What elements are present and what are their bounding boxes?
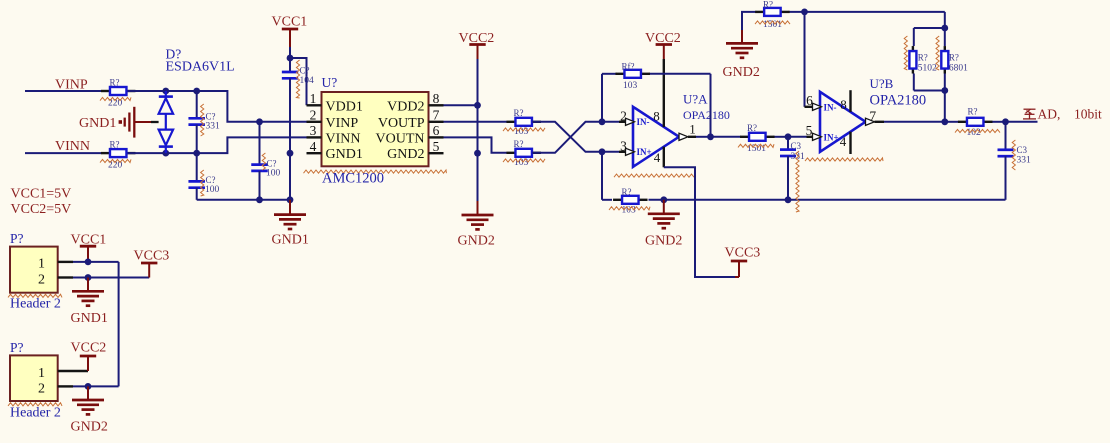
wire IN+ stub bbox=[602, 151, 626, 153]
op-amp U2A OPA2180 triangle bbox=[633, 92, 730, 167]
svg-text:GND1: GND1 bbox=[71, 311, 108, 326]
svg-text:IN+: IN+ bbox=[637, 147, 652, 157]
connector P1 Header 2 body bbox=[10, 231, 58, 293]
svg-text:VCC1: VCC1 bbox=[272, 15, 308, 30]
svg-text:VCC1=5V: VCC1=5V bbox=[11, 186, 72, 201]
pin 4 line V- bbox=[654, 147, 664, 168]
wire link P1 pin1 to P2 pin2 bbox=[118, 262, 120, 387]
pin 2 VINP stub bbox=[307, 108, 322, 123]
resistor R10 6801 bbox=[941, 46, 968, 74]
wire pair top bar bbox=[914, 28, 945, 46]
svg-text:AD,: AD, bbox=[1038, 107, 1061, 122]
junction output row at pair bbox=[941, 118, 948, 125]
power VCC2 at P2 bbox=[71, 341, 107, 371]
svg-text:IN+: IN+ bbox=[824, 132, 839, 142]
capacitor C1 331 (across inputs) bbox=[188, 91, 220, 153]
wire feedback top row bbox=[602, 73, 711, 75]
wire ground to diode midpoint bbox=[151, 121, 159, 123]
power VCC2 for U2A bbox=[645, 31, 681, 59]
svg-text:VCC2=5V: VCC2=5V bbox=[11, 202, 72, 217]
wire pair verticals bbox=[914, 28, 945, 91]
wire U2A output to node bbox=[696, 136, 711, 138]
squiggle beside C4 bbox=[296, 60, 299, 98]
wire VINP left segment bbox=[25, 90, 102, 92]
resistor R1 220 (VINP series) bbox=[101, 78, 136, 109]
svg-text:U?B: U?B bbox=[870, 76, 894, 91]
wire IN- stub bbox=[602, 121, 626, 123]
junction VINN at diode bbox=[162, 150, 169, 157]
svg-text:P?: P? bbox=[10, 231, 24, 246]
svg-text:Rf?: Rf? bbox=[622, 62, 635, 72]
svg-text:6801: 6801 bbox=[949, 64, 968, 74]
svg-text:Header 2: Header 2 bbox=[10, 297, 61, 312]
svg-text:1: 1 bbox=[689, 122, 696, 137]
pin 1 output arrow bbox=[679, 122, 696, 141]
wire feedback right drop to output bbox=[710, 74, 712, 137]
squiggle under P2 bbox=[8, 403, 62, 406]
junction rail at C3 bbox=[256, 196, 263, 203]
squiggle under R7 bbox=[738, 144, 774, 147]
wire pair bottom bar bbox=[914, 90, 945, 92]
junction U2A output node bbox=[707, 133, 714, 140]
junction rail at C5 bbox=[785, 196, 792, 203]
svg-text:5: 5 bbox=[806, 123, 813, 138]
svg-text:R?: R? bbox=[968, 107, 978, 117]
resistor R2 220 (VINN series) bbox=[101, 140, 136, 171]
wire VCC2/GND2 column bbox=[477, 59, 479, 201]
wire bottom rail bbox=[602, 199, 1006, 201]
resistor R9 5102 bbox=[909, 46, 937, 74]
svg-text:Header 2: Header 2 bbox=[10, 406, 61, 421]
power VCC1 (top) bbox=[272, 15, 308, 48]
ground GND1 at P1 bbox=[71, 278, 108, 326]
wire C4 bottom to ground column bbox=[289, 78, 291, 200]
svg-text:103: 103 bbox=[623, 81, 638, 91]
squiggle beside C6 bbox=[1012, 140, 1015, 170]
squiggle under U1 bbox=[304, 170, 447, 173]
svg-text:2: 2 bbox=[310, 108, 317, 123]
svg-text:P?: P? bbox=[10, 340, 24, 355]
svg-text:8: 8 bbox=[433, 91, 440, 106]
pin 8 line V+ bbox=[653, 59, 664, 127]
svg-text:R?: R? bbox=[747, 123, 757, 133]
svg-text:7: 7 bbox=[869, 108, 876, 123]
svg-text:104: 104 bbox=[300, 76, 315, 86]
wire P1 pin2 row bbox=[73, 277, 149, 279]
svg-text:331: 331 bbox=[206, 122, 221, 132]
wire IN+ down to gnd row bbox=[601, 152, 603, 200]
svg-text:VINN: VINN bbox=[55, 139, 90, 154]
junction IN+ node bbox=[599, 148, 606, 155]
svg-text:2: 2 bbox=[38, 273, 45, 288]
svg-text:4: 4 bbox=[654, 150, 661, 165]
resistor R11 102 (output) bbox=[958, 107, 993, 139]
pin name VINN bbox=[326, 131, 361, 146]
wire pin6 column down bbox=[804, 12, 806, 107]
wire VOUTP pin7 row bbox=[444, 121, 507, 123]
junction pair bottom bbox=[941, 87, 948, 94]
squiggle beside C2 bbox=[201, 170, 204, 196]
capacitor C5 331 bbox=[780, 137, 805, 200]
svg-text:R?: R? bbox=[918, 53, 928, 63]
squiggle beside C1 bbox=[201, 104, 204, 136]
squiggle beside R10 bbox=[936, 36, 939, 70]
svg-text:1: 1 bbox=[38, 257, 45, 272]
pin name VDD1 bbox=[326, 99, 363, 114]
svg-text:1: 1 bbox=[310, 91, 317, 106]
wire crossover VOUTN to IN- bbox=[532, 122, 602, 153]
squiggle under R6 bbox=[609, 207, 650, 210]
op-amp U2B OPA2180 triangle bbox=[820, 76, 926, 152]
squiggle under U2B bbox=[805, 158, 883, 161]
svg-text:GND2: GND2 bbox=[71, 420, 108, 435]
squiggle under R8 bbox=[755, 21, 790, 24]
svg-text:VOUTN: VOUTN bbox=[376, 131, 425, 146]
svg-text:C?: C? bbox=[300, 66, 310, 76]
pin name VOUTP bbox=[378, 116, 425, 131]
pin 7 output arrow bbox=[866, 108, 885, 125]
svg-text:C3: C3 bbox=[791, 141, 802, 151]
svg-text:U?: U? bbox=[322, 75, 338, 90]
svg-text:C?: C? bbox=[267, 159, 277, 169]
wire U2B output row bbox=[884, 121, 1038, 123]
junction P1 pin2 at GND1 bbox=[85, 274, 92, 281]
pin 1 of P1 bbox=[38, 257, 73, 272]
junction VDD2 node bbox=[474, 102, 481, 109]
power VCC3 for U2A bbox=[725, 246, 761, 278]
pin name VDD2 bbox=[387, 99, 424, 114]
resistor R5 Rf 103 (feedback) bbox=[615, 62, 650, 92]
squiggle under U2A bbox=[614, 174, 694, 177]
pin 5 arrow IN+ bbox=[813, 132, 839, 142]
svg-text:3: 3 bbox=[620, 138, 627, 153]
wire VINN left segment bbox=[25, 152, 102, 154]
junction C3 top on VINP row bbox=[256, 118, 263, 125]
ground GND2 (under chip right) bbox=[458, 201, 495, 249]
squiggle beside C5 bbox=[796, 151, 799, 212]
svg-text:IN-: IN- bbox=[824, 102, 837, 112]
pin 1 VDD1 stub bbox=[307, 91, 322, 106]
svg-text:4: 4 bbox=[840, 134, 847, 149]
svg-text:100: 100 bbox=[205, 185, 220, 195]
ground GND2 at P2 bbox=[71, 386, 108, 434]
svg-text:VINN: VINN bbox=[326, 131, 361, 146]
junction gnd column at pin4 row bbox=[287, 150, 294, 157]
resistor R4 103 (VOUTN) bbox=[506, 139, 541, 168]
svg-text:3: 3 bbox=[310, 123, 317, 138]
svg-text:GND1: GND1 bbox=[272, 233, 309, 248]
pin 2 of P2 bbox=[38, 381, 73, 396]
junction P1 pin1 at VCC1 bbox=[85, 259, 92, 266]
svg-text:R?: R? bbox=[514, 139, 524, 149]
svg-text:VINP: VINP bbox=[326, 116, 359, 131]
pin 2 arrow IN- bbox=[620, 108, 649, 127]
svg-text:10bit: 10bit bbox=[1074, 107, 1102, 122]
gnd rail under input caps bbox=[197, 199, 290, 201]
svg-text:331: 331 bbox=[1017, 156, 1032, 166]
pin name GND2 bbox=[387, 147, 424, 162]
junction VCC1 node bbox=[287, 55, 294, 62]
wire crossover VOUTP to IN+ bbox=[532, 122, 602, 152]
pin 8 stub V+ bbox=[840, 90, 850, 112]
wire VINP to chip step bbox=[128, 91, 307, 122]
wire VCC1 stem to junction bbox=[289, 47, 291, 58]
wire pin4 to VCC3 bbox=[664, 167, 739, 277]
junction rail at gnd column bbox=[287, 196, 294, 203]
resistor R7 1501 (interstage) bbox=[740, 123, 775, 154]
wire feedback right corner down bbox=[944, 12, 946, 28]
wire VINN to chip step bbox=[128, 137, 307, 153]
wire VOUTN pin6 step down bbox=[444, 137, 507, 152]
wire feedback left drop bbox=[601, 74, 603, 122]
ground GND2 (top) bbox=[723, 30, 760, 80]
squiggle under R11 bbox=[955, 129, 1000, 132]
svg-text:C?: C? bbox=[206, 175, 216, 185]
net label VINN bbox=[55, 139, 90, 154]
junction rail at GND2 bbox=[660, 196, 667, 203]
pin 6 arrow IN- bbox=[813, 102, 837, 112]
svg-text:5: 5 bbox=[433, 139, 440, 154]
svg-text:C3: C3 bbox=[1017, 145, 1028, 155]
svg-text:6: 6 bbox=[433, 123, 440, 138]
svg-text:OPA2180: OPA2180 bbox=[683, 108, 730, 122]
svg-text:4: 4 bbox=[310, 139, 317, 154]
diode D1 ESDA6V1L (dual TVS) bbox=[159, 47, 235, 154]
svg-text:GND2: GND2 bbox=[387, 147, 424, 162]
capacitor C3 100 (VINP to gnd rail) bbox=[251, 122, 280, 200]
IC U1 AMC1200 body bbox=[322, 75, 429, 166]
svg-text:8: 8 bbox=[840, 97, 847, 112]
wire pin8 VDD2 to column bbox=[444, 104, 478, 106]
pin name VINP bbox=[326, 116, 359, 131]
pin 6 VOUTN stub bbox=[429, 123, 444, 138]
svg-text:GND2: GND2 bbox=[458, 234, 495, 249]
svg-text:102: 102 bbox=[967, 128, 982, 138]
svg-text:8: 8 bbox=[653, 109, 660, 124]
svg-text:R?: R? bbox=[763, 0, 773, 10]
svg-text:R?: R? bbox=[110, 140, 120, 150]
power VCC1 at P1 bbox=[71, 233, 107, 262]
svg-text:AMC1200: AMC1200 bbox=[322, 171, 384, 187]
junction pair top bbox=[941, 25, 948, 32]
pin 3 VINN stub bbox=[307, 123, 322, 138]
svg-text:VDD2: VDD2 bbox=[387, 99, 424, 114]
pin 8 VDD2 stub bbox=[429, 91, 444, 106]
svg-text:R?: R? bbox=[622, 187, 632, 197]
squiggle under R4 bbox=[503, 159, 545, 162]
wire top feedback row bbox=[742, 12, 945, 30]
junction VINN at C2/C3 column bbox=[193, 150, 200, 157]
wire output row to U2B bbox=[711, 136, 807, 138]
part name Header 2 (P1) bbox=[10, 297, 61, 312]
svg-text:5102: 5102 bbox=[918, 64, 937, 74]
ground GND2 (U2A leg) bbox=[645, 200, 682, 249]
resistor R6 103 (to GND2) bbox=[613, 187, 648, 216]
resistor R8 1501 (U2B feedback) bbox=[755, 0, 790, 30]
power ground GND1 (input clamp) bbox=[79, 107, 151, 138]
capacitor C6 331 (output) bbox=[998, 122, 1032, 200]
squiggle under R1 bbox=[100, 97, 131, 100]
svg-text:103: 103 bbox=[622, 206, 637, 216]
wire P1 pin1 row bbox=[73, 261, 119, 263]
svg-text:1: 1 bbox=[38, 366, 45, 381]
wire pair to output row bbox=[944, 91, 946, 122]
svg-text:ESDA6V1L: ESDA6V1L bbox=[166, 60, 235, 75]
junction IN- node bbox=[599, 118, 606, 125]
pin 3 arrow IN+ bbox=[620, 138, 652, 157]
svg-text:R?: R? bbox=[949, 53, 959, 63]
capacitor C2 100 (VINN to gnd rail) bbox=[188, 153, 219, 200]
svg-text:GND2: GND2 bbox=[645, 233, 682, 248]
svg-text:R?: R? bbox=[110, 78, 120, 88]
junction at C5 top bbox=[785, 133, 792, 140]
pin 5 GND2 stub bbox=[429, 139, 444, 154]
junction GND2 pin5 node bbox=[474, 150, 481, 157]
junction feedback at pin6 column bbox=[801, 9, 808, 16]
svg-text:U?A: U?A bbox=[683, 92, 708, 107]
svg-text:2: 2 bbox=[38, 381, 45, 396]
junction output node bbox=[1002, 118, 1009, 125]
squiggle under R3 bbox=[503, 128, 545, 131]
connector P2 Header 2 body bbox=[10, 340, 58, 401]
svg-text:7: 7 bbox=[433, 108, 440, 123]
ground GND1 (under chip) bbox=[272, 200, 309, 248]
part name AMC1200 bbox=[322, 171, 384, 187]
junction VINP at C2 bbox=[193, 88, 200, 95]
pin name GND1 bbox=[326, 147, 363, 162]
resistor R3 103 (VOUTP) bbox=[506, 108, 541, 137]
svg-text:GND1: GND1 bbox=[79, 116, 116, 131]
power VCC3 at P1 bbox=[134, 248, 170, 277]
power VCC2 (above chip right) bbox=[459, 31, 495, 59]
wire VCC1 to pin1 VDD1 bbox=[290, 58, 307, 105]
wire U2B IN+ stub bbox=[806, 123, 813, 138]
capacitor C4 104 (VCC1 decouple) bbox=[282, 58, 314, 86]
wire U2B IN- stub bbox=[805, 93, 814, 108]
wire P2 pin2 row bbox=[73, 385, 119, 387]
pin 4 GND1 stub bbox=[307, 139, 322, 154]
svg-text:100: 100 bbox=[266, 169, 281, 179]
note VCC1=5V bbox=[11, 186, 72, 201]
svg-text:VCC2: VCC2 bbox=[71, 341, 107, 356]
net label to AD 10bit bbox=[1023, 107, 1102, 122]
svg-text:C?: C? bbox=[206, 112, 216, 122]
svg-text:OPA2180: OPA2180 bbox=[870, 93, 927, 109]
junction P2 pin2 bbox=[85, 383, 92, 390]
svg-text:GND2: GND2 bbox=[723, 65, 760, 80]
squiggle under R2 bbox=[100, 159, 131, 162]
junction VINP at diode bbox=[162, 88, 169, 95]
squiggle beside R9 bbox=[904, 36, 907, 70]
note VCC2=5V bbox=[11, 202, 72, 217]
net label VINP bbox=[55, 78, 88, 93]
svg-text:VCC3: VCC3 bbox=[725, 246, 761, 261]
pin 4 stub V- bbox=[840, 132, 851, 154]
pin 7 VOUTP stub bbox=[429, 108, 444, 123]
squiggle under P1 bbox=[8, 294, 62, 297]
svg-text:GND1: GND1 bbox=[326, 147, 363, 162]
svg-text:2: 2 bbox=[620, 108, 627, 123]
svg-text:VDD1: VDD1 bbox=[326, 99, 363, 114]
svg-text:R?: R? bbox=[514, 108, 524, 118]
squiggle beside C3 bbox=[262, 153, 265, 170]
svg-text:VCC3: VCC3 bbox=[134, 248, 170, 263]
pin name VOUTN bbox=[376, 131, 425, 146]
svg-text:VOUTP: VOUTP bbox=[378, 116, 425, 131]
pin 2 of P1 bbox=[38, 273, 73, 288]
part name Header 2 (P2) bbox=[10, 406, 61, 421]
svg-text:IN-: IN- bbox=[637, 117, 650, 127]
pin 1 of P2 bbox=[38, 366, 88, 381]
